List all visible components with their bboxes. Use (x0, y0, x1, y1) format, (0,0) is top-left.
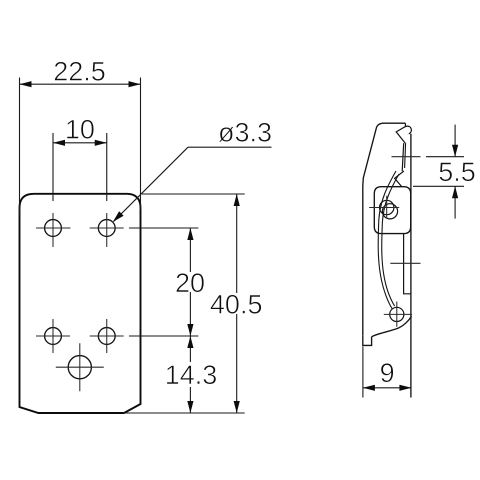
dim 20 line upper segment (189, 228, 191, 272)
svg-text:9: 9 (380, 358, 395, 388)
side view: top-right tab (405, 123, 411, 134)
hole B2 bottom-right (98, 328, 115, 345)
dim 40.5 extension line bottom (124, 412, 245, 414)
side view: right mounting edge (410, 134, 412, 398)
svg-text:5.5: 5.5 (438, 157, 476, 187)
dim 20 arrow up (187, 228, 193, 240)
side view: bottom lip curve (372, 316, 412, 337)
dim 14.3 line upper segment (189, 336, 191, 362)
side view: bottom foot tab (363, 336, 372, 346)
dim 22.5 extension line right (140, 78, 142, 211)
dim 10 extension line left / hole A1 axis (52, 133, 54, 201)
svg-text:40.5: 40.5 (210, 289, 263, 319)
side view: catch housing rounded rect (374, 187, 410, 234)
center hole C centerlines (56, 343, 104, 391)
dim 22.5 arrow left (20, 81, 32, 87)
plate outline (front view) (20, 194, 141, 413)
dim 20 arrow down (187, 324, 193, 336)
side view: spring wire back line (382, 174, 399, 306)
hole B1 centerlines (36, 319, 70, 353)
hole B2 centerlines (90, 319, 124, 353)
dim 9 arrow left (363, 385, 375, 391)
dim 22.5 extension line left (19, 78, 21, 216)
dim 22.5 line (20, 83, 141, 85)
dim 14.3 arrow down (187, 401, 193, 413)
svg-text:10: 10 (65, 114, 95, 144)
hole A1 top-left (45, 220, 62, 237)
dim 14.3 arrow up (187, 336, 193, 348)
dim 20 extension line bottom (hole row B axis) (129, 335, 198, 337)
hole A1 centerlines (36, 213, 71, 247)
dim 5.5 arrow up (452, 186, 458, 198)
side view: latch centerline (392, 156, 421, 158)
dim 9 line (363, 387, 412, 389)
dim 5.5 extension line bottom (413, 185, 464, 187)
side view: inner slot (404, 234, 411, 294)
dim 40.5 arrow down (234, 401, 240, 413)
side view: rivet hole E centerlines (384, 302, 412, 327)
dim 10 line (53, 142, 107, 144)
dim 5.5 arrow down (452, 145, 458, 157)
side view: rivet hole E (390, 307, 404, 321)
side view: rivet hole D ring 1 (380, 200, 394, 214)
dim 40.5 extension line top (142, 193, 245, 195)
side view: clip inner edge (402, 143, 404, 171)
side view: clip inner edge 2 (405, 143, 406, 168)
dim 40.5 line upper segment (236, 194, 238, 293)
hole B1 bottom-left (45, 328, 62, 345)
dim 5.5 line lower leader (454, 186, 456, 218)
svg-text:22.5: 22.5 (53, 57, 106, 87)
side view: slot centerline (390, 262, 420, 264)
dim 5.5 extension line top (426, 156, 464, 158)
side view: spring wire front line (378, 171, 396, 309)
side view: upper arm outline (363, 123, 406, 336)
dim 9 extension line left (362, 347, 364, 398)
dim 9 arrow right (399, 385, 411, 391)
leader arrow at hole A2 (113, 211, 124, 222)
dim 10 arrow left (53, 140, 65, 146)
hole A2 top-right (98, 220, 115, 237)
dim 5.5 line upper leader (454, 125, 456, 157)
center hole C (68, 356, 91, 379)
dim 22.5 arrow right (129, 81, 141, 87)
svg-text:20: 20 (175, 268, 205, 298)
side view: rivet hole D centerlines (369, 196, 399, 219)
dim 20 line lower segment (189, 292, 191, 336)
svg-text:14.3: 14.3 (165, 360, 218, 390)
side view: clip V-notch bottom (395, 171, 404, 187)
hole A2 centerlines (90, 213, 124, 247)
dim 10 extension line right / hole A2 axis (106, 133, 108, 201)
dim 10 arrow right (95, 140, 107, 146)
dim 40.5 line lower segment (236, 314, 238, 413)
svg-text:ø3.3: ø3.3 (218, 118, 272, 148)
dim 20 extension line top (hole row A axis) (129, 227, 198, 229)
side view: rivet hole D ring 2 (382, 204, 397, 219)
leader diameter 3.3 shoulder (188, 146, 272, 148)
dim 40.5 arrow up (234, 194, 240, 206)
leader diameter 3.3 diagonal (114, 147, 189, 221)
dim 14.3 line lower segment (189, 387, 191, 413)
side view: clip V-notch top (396, 127, 405, 144)
